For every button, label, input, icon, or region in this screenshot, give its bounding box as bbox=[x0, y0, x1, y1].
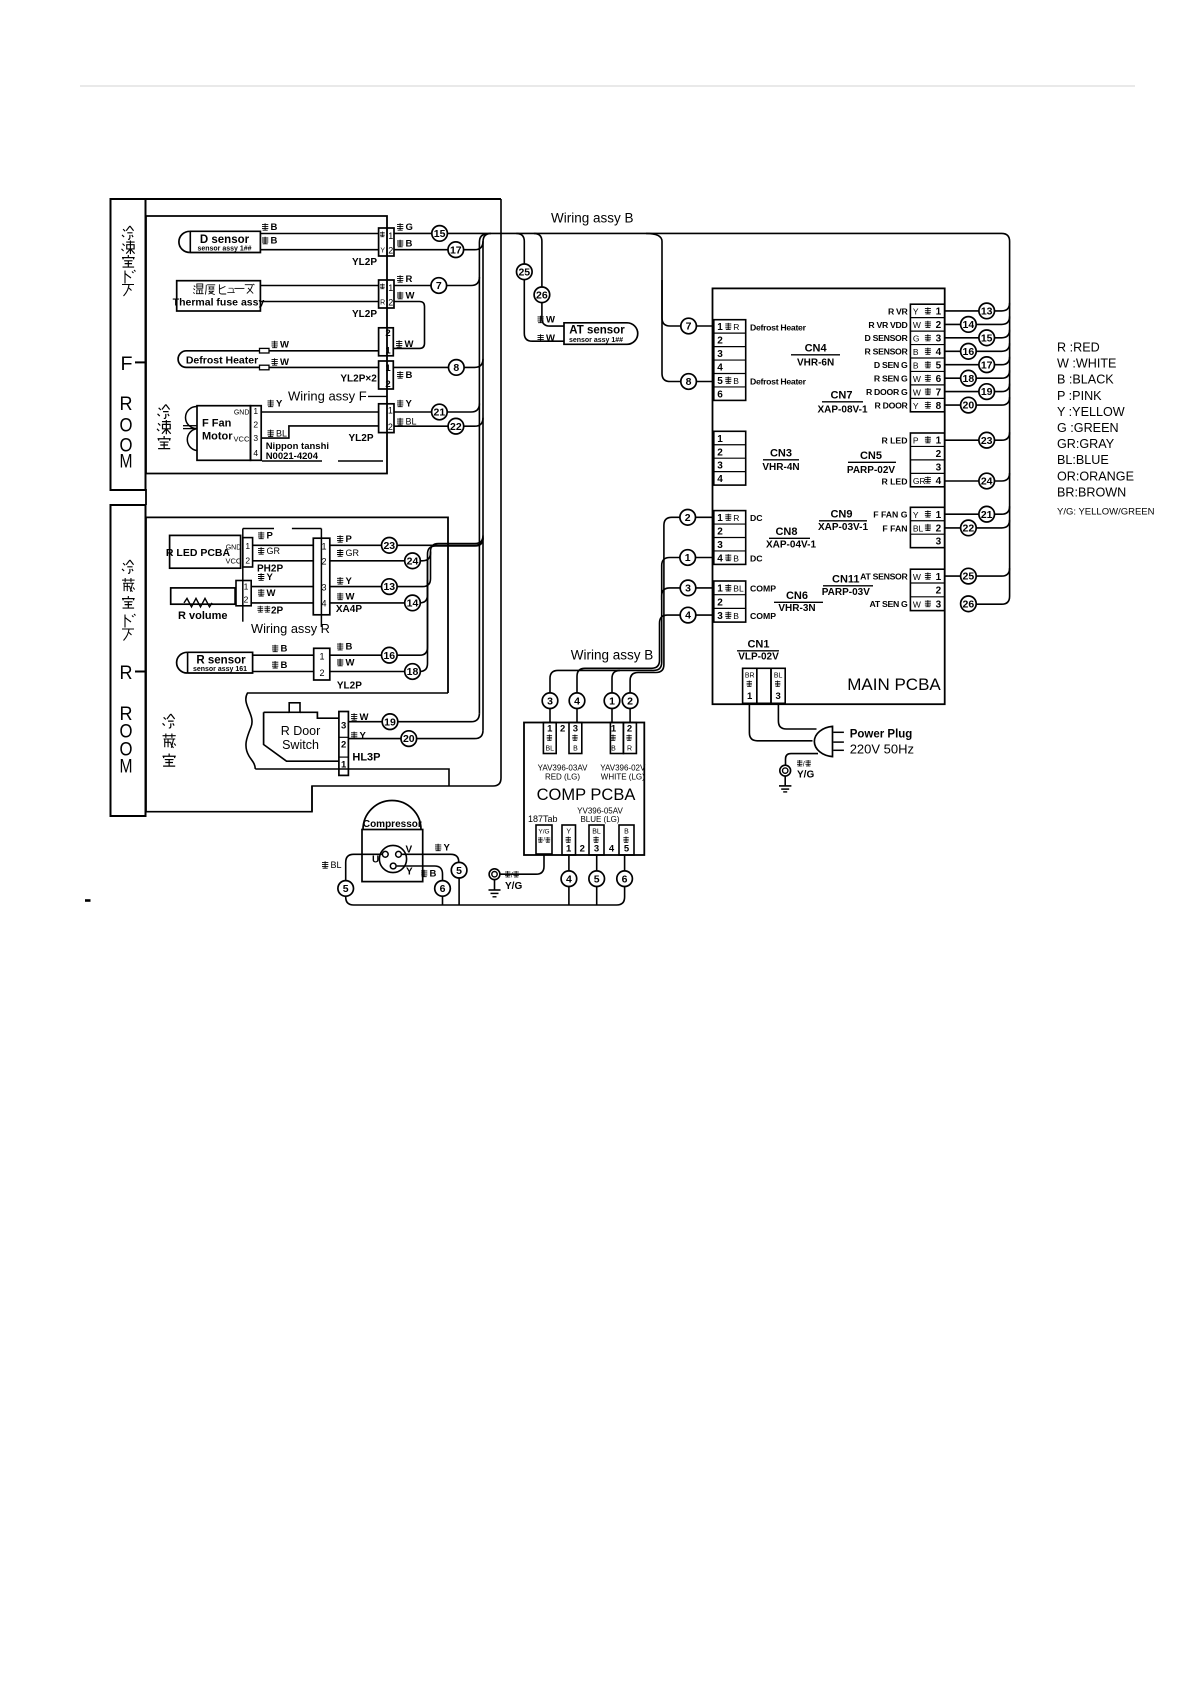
label Y/G bbox=[505, 871, 510, 877]
connector CN1 bbox=[743, 668, 757, 703]
label Y yellow bbox=[258, 573, 264, 580]
svg-text:XA4P: XA4P bbox=[336, 604, 362, 615]
svg-text:COMP PCBA: COMP PCBA bbox=[537, 786, 636, 804]
compressor terminal bbox=[379, 845, 406, 872]
svg-text:6: 6 bbox=[622, 873, 628, 885]
svg-text:7: 7 bbox=[436, 280, 442, 292]
svg-text:3: 3 bbox=[936, 600, 942, 611]
svg-text:3: 3 bbox=[717, 540, 723, 551]
svg-text:22: 22 bbox=[963, 523, 975, 535]
svg-text:2: 2 bbox=[321, 557, 326, 567]
svg-text:1: 1 bbox=[936, 572, 942, 583]
svg-text:220V 50Hz: 220V 50Hz bbox=[850, 742, 914, 757]
svg-text:17: 17 bbox=[450, 244, 462, 256]
chassis ground bbox=[489, 869, 500, 880]
svg-text:BL: BL bbox=[276, 428, 287, 438]
node 18 (right) bbox=[961, 370, 977, 386]
svg-text:W :WHITE: W :WHITE bbox=[1057, 357, 1116, 371]
wire 8 to bus bbox=[393, 359, 483, 368]
svg-text:W: W bbox=[546, 315, 555, 326]
connector CN3 bbox=[714, 431, 746, 485]
label B black bbox=[272, 661, 278, 668]
svg-text:3: 3 bbox=[253, 433, 258, 443]
wire volume pin2 bbox=[251, 602, 313, 604]
thermal fuse assy bbox=[177, 281, 261, 311]
svg-text:19: 19 bbox=[981, 386, 993, 398]
svg-text:CN4: CN4 bbox=[805, 343, 828, 355]
svg-text:Y :YELLOW: Y :YELLOW bbox=[1057, 405, 1125, 419]
bottom rail bbox=[346, 887, 625, 906]
svg-text:R LED: R LED bbox=[881, 476, 907, 486]
node 18 bbox=[405, 664, 421, 680]
svg-text:R: R bbox=[627, 746, 632, 753]
svg-text:3: 3 bbox=[936, 537, 942, 548]
svg-text:16: 16 bbox=[963, 346, 975, 358]
R door switch body bbox=[264, 712, 339, 761]
svg-text:2: 2 bbox=[388, 298, 393, 308]
wire defrost top bbox=[269, 350, 379, 352]
wire 17 to bus bbox=[394, 241, 483, 250]
svg-text:1: 1 bbox=[388, 406, 393, 416]
svg-text:Y/G: YELLOW/GREEN: Y/G: YELLOW/GREEN bbox=[1057, 507, 1155, 518]
svg-text:1: 1 bbox=[936, 307, 942, 318]
svg-text:7: 7 bbox=[936, 387, 942, 398]
node 15 bbox=[432, 226, 448, 242]
compressor dome bbox=[363, 801, 421, 830]
svg-text:1: 1 bbox=[385, 363, 391, 374]
node 24 bbox=[405, 553, 421, 569]
fan blades bbox=[186, 407, 197, 451]
svg-text:B: B bbox=[430, 869, 437, 880]
node 7 (left) bbox=[431, 278, 447, 294]
svg-text:1: 1 bbox=[547, 724, 553, 735]
svg-text:2: 2 bbox=[385, 379, 390, 390]
svg-text:COMP: COMP bbox=[750, 584, 776, 594]
wire 19 (right) bbox=[945, 384, 1010, 392]
node 13 (right) bbox=[979, 303, 995, 319]
svg-text:YL2P×2: YL2P×2 bbox=[340, 374, 377, 385]
node 21 (right) bbox=[979, 506, 995, 522]
svg-text:W: W bbox=[280, 357, 289, 368]
svg-text:1: 1 bbox=[936, 510, 942, 521]
svg-text:1: 1 bbox=[388, 231, 393, 241]
svg-text:2: 2 bbox=[717, 527, 723, 538]
label P pink bbox=[258, 532, 264, 539]
node 14 bbox=[405, 595, 421, 611]
door switch enclosure bbox=[246, 693, 449, 786]
comp connector YAV396-03AV bbox=[543, 723, 556, 754]
compressor body bbox=[362, 830, 423, 882]
wire 20 (right) bbox=[945, 397, 1010, 405]
svg-text:Y: Y bbox=[913, 307, 919, 317]
label B black bbox=[262, 223, 268, 230]
svg-text:YL2P: YL2P bbox=[352, 257, 377, 268]
svg-text:P: P bbox=[913, 436, 919, 446]
svg-text:B: B bbox=[406, 239, 413, 250]
svg-text:VHR-4N: VHR-4N bbox=[762, 462, 799, 473]
svg-text:U: U bbox=[372, 855, 379, 866]
svg-text:CN6: CN6 bbox=[786, 590, 808, 602]
svg-text:3: 3 bbox=[594, 844, 599, 855]
svg-text:21: 21 bbox=[434, 407, 446, 419]
wire 18 (right) bbox=[945, 370, 1010, 378]
svg-text:Y: Y bbox=[913, 401, 919, 411]
dashed assembly bottom bbox=[262, 460, 322, 462]
svg-text:13: 13 bbox=[981, 306, 993, 318]
svg-text:Wiring assy R: Wiring assy R bbox=[251, 621, 330, 636]
svg-text:OR:ORANGE: OR:ORANGE bbox=[1057, 469, 1134, 483]
R sensor bbox=[187, 652, 253, 673]
label W white bbox=[272, 341, 278, 348]
svg-text:17: 17 bbox=[981, 359, 993, 371]
page rule bbox=[80, 85, 1135, 87]
label G green bbox=[397, 223, 403, 230]
node 19 bbox=[382, 714, 398, 730]
svg-text:2: 2 bbox=[936, 320, 942, 331]
kanji reizoushitsu bbox=[163, 714, 175, 728]
label R red bbox=[397, 275, 403, 282]
svg-text:1: 1 bbox=[566, 844, 572, 855]
svg-text:R: R bbox=[406, 274, 413, 285]
svg-text:2: 2 bbox=[319, 668, 324, 678]
wire loop thermal to heater connector bbox=[393, 302, 424, 349]
wire 21 to bus bbox=[394, 404, 479, 413]
svg-text:4: 4 bbox=[685, 610, 691, 622]
earth ground bbox=[780, 765, 791, 776]
svg-text:1: 1 bbox=[253, 406, 258, 416]
node 24 (right) bbox=[979, 473, 995, 489]
svg-text:VLP-02V: VLP-02V bbox=[738, 652, 779, 663]
node 25 (right) bbox=[961, 568, 977, 584]
MAIN PCBA board bbox=[713, 288, 945, 704]
svg-text:/: / bbox=[511, 873, 513, 880]
svg-text:1: 1 bbox=[388, 283, 393, 293]
R door label kanji bbox=[122, 560, 134, 573]
svg-text:sensor assy 1##: sensor assy 1## bbox=[197, 246, 251, 253]
svg-text:F FAN G: F FAN G bbox=[873, 510, 908, 520]
svg-text:20: 20 bbox=[963, 400, 975, 412]
svg-text:W: W bbox=[406, 291, 415, 302]
svg-text:2: 2 bbox=[717, 597, 723, 608]
R LED PCBA bbox=[170, 535, 241, 568]
svg-text:CN11: CN11 bbox=[832, 574, 860, 586]
wire 22 (right) bbox=[945, 520, 1010, 528]
svg-text:CN1: CN1 bbox=[747, 639, 769, 651]
svg-text:R: R bbox=[380, 300, 385, 307]
svg-text:B: B bbox=[624, 829, 629, 836]
svg-text:B: B bbox=[271, 236, 278, 247]
svg-text:R VR VDD: R VR VDD bbox=[868, 320, 907, 330]
label W white bbox=[397, 292, 403, 299]
wire 23 bbox=[330, 537, 483, 545]
label GR gray bbox=[258, 547, 264, 554]
wire 24 (right) bbox=[945, 473, 1010, 481]
svg-text:P: P bbox=[267, 531, 274, 542]
svg-text:3: 3 bbox=[936, 462, 942, 473]
node 25 bbox=[517, 264, 533, 280]
svg-text:YL2P: YL2P bbox=[348, 433, 373, 444]
label W white bbox=[258, 589, 264, 596]
svg-text:Y: Y bbox=[380, 248, 385, 255]
svg-text:R sensor: R sensor bbox=[196, 654, 246, 666]
svg-text:4: 4 bbox=[936, 347, 942, 358]
svg-text:1: 1 bbox=[319, 652, 324, 662]
svg-text:20: 20 bbox=[403, 733, 415, 745]
connector CN9 bbox=[910, 507, 944, 547]
svg-text:3: 3 bbox=[717, 461, 723, 472]
svg-text:3: 3 bbox=[717, 611, 723, 622]
label W white bbox=[337, 659, 343, 666]
F top boundary line bbox=[111, 198, 502, 200]
F room door box bbox=[111, 199, 146, 490]
connector YL2P (D sensor) bbox=[379, 228, 394, 256]
wire volume pin1 bbox=[251, 586, 313, 588]
svg-text:HL3P: HL3P bbox=[352, 752, 380, 764]
svg-text:Y: Y bbox=[346, 576, 353, 587]
comp connector YAV396-02V bbox=[610, 723, 623, 754]
wiring assy R boundary bbox=[243, 528, 274, 530]
svg-text:23: 23 bbox=[981, 435, 993, 447]
svg-text:Compressor: Compressor bbox=[363, 819, 422, 830]
svg-text:PARP-03V: PARP-03V bbox=[822, 587, 870, 598]
svg-text:XAP-03V-1: XAP-03V-1 bbox=[818, 522, 868, 533]
svg-text:14: 14 bbox=[407, 598, 419, 610]
label B black bbox=[397, 371, 403, 378]
plug ground wire bbox=[786, 754, 819, 766]
svg-text:4: 4 bbox=[574, 695, 580, 707]
svg-text:GND: GND bbox=[226, 545, 242, 552]
comp bottom wires bbox=[568, 855, 570, 871]
svg-text:BL: BL bbox=[774, 673, 783, 680]
svg-text:Y: Y bbox=[406, 867, 413, 878]
svg-text:25: 25 bbox=[963, 571, 975, 583]
svg-text:F FAN: F FAN bbox=[882, 523, 907, 533]
svg-text:2: 2 bbox=[341, 740, 346, 751]
svg-text:2P: 2P bbox=[271, 606, 284, 617]
svg-text:Thermal fuse assy: Thermal fuse assy bbox=[173, 297, 265, 309]
label W white bbox=[538, 316, 544, 323]
wire 16 bbox=[330, 560, 428, 655]
wire fan GND bbox=[261, 411, 378, 413]
svg-text:Y: Y bbox=[444, 843, 451, 854]
svg-text:Y: Y bbox=[406, 399, 413, 410]
svg-text:YL2P: YL2P bbox=[352, 309, 377, 320]
R volume bbox=[171, 588, 235, 604]
svg-text:1: 1 bbox=[244, 582, 249, 592]
wire 22 to bus bbox=[394, 418, 483, 427]
node 23 (right) bbox=[979, 432, 995, 448]
svg-text:2: 2 bbox=[244, 595, 249, 605]
svg-text:1: 1 bbox=[685, 552, 691, 564]
svg-text:XAP-04V-1: XAP-04V-1 bbox=[766, 540, 816, 551]
wire D sensor pin1 bbox=[260, 233, 378, 235]
node 20 (right) bbox=[961, 397, 977, 413]
svg-text:15: 15 bbox=[434, 228, 446, 240]
svg-text:Defrost Heater: Defrost Heater bbox=[186, 355, 258, 367]
defrost heater bbox=[178, 351, 259, 368]
svg-text:R: R bbox=[733, 322, 739, 332]
svg-text:VHR-6N: VHR-6N bbox=[797, 358, 834, 369]
node 21 bbox=[432, 404, 448, 420]
svg-text:D sensor: D sensor bbox=[200, 234, 250, 246]
svg-text:24: 24 bbox=[407, 555, 419, 567]
svg-text:B: B bbox=[281, 644, 288, 655]
connector HL3P bbox=[339, 712, 349, 776]
svg-text:Y: Y bbox=[913, 510, 919, 520]
node 3 (CN6) bbox=[696, 587, 714, 589]
svg-text:B: B bbox=[733, 376, 739, 386]
svg-text:XAP-08V-1: XAP-08V-1 bbox=[817, 405, 867, 416]
label B black bbox=[421, 870, 427, 877]
node 15 (right) bbox=[979, 330, 995, 346]
svg-text:8: 8 bbox=[686, 376, 692, 388]
connector volume 2P bbox=[236, 581, 251, 606]
svg-text:sensor assy 161: sensor assy 161 bbox=[193, 666, 247, 673]
svg-text:/: / bbox=[803, 762, 805, 769]
power plug bbox=[814, 726, 832, 756]
svg-text:4: 4 bbox=[321, 599, 326, 609]
ground wire from tab bbox=[500, 854, 544, 874]
svg-text:R volume: R volume bbox=[178, 610, 228, 622]
label Y yellow bbox=[337, 577, 343, 584]
svg-text:W: W bbox=[280, 340, 289, 351]
svg-text:VCC: VCC bbox=[234, 434, 250, 443]
svg-text:Y: Y bbox=[276, 399, 283, 410]
label B black bbox=[262, 237, 268, 244]
svg-text:CN7: CN7 bbox=[830, 390, 852, 402]
svg-text:VCC: VCC bbox=[225, 557, 241, 566]
svg-text:CN5: CN5 bbox=[860, 450, 882, 462]
svg-text:2: 2 bbox=[936, 586, 942, 597]
svg-text:Wiring assy B: Wiring assy B bbox=[571, 648, 654, 663]
svg-text:COMP: COMP bbox=[750, 611, 776, 621]
connector CN4 bbox=[714, 320, 746, 401]
connector YL2Px2 upper bbox=[379, 328, 394, 356]
svg-text:15: 15 bbox=[981, 332, 993, 344]
svg-text:W: W bbox=[913, 374, 921, 384]
wire 15 (right) bbox=[945, 330, 1010, 338]
node 4 (bottom) bbox=[561, 871, 577, 887]
connector CN6 bbox=[714, 581, 746, 622]
svg-text:M: M bbox=[120, 451, 133, 472]
svg-text:Switch: Switch bbox=[282, 738, 319, 752]
svg-text:YAV396-03AV: YAV396-03AV bbox=[538, 764, 588, 773]
F door label kanji bbox=[122, 226, 134, 239]
svg-text:6: 6 bbox=[936, 374, 942, 385]
door box link bbox=[145, 489, 147, 505]
node 16 bbox=[382, 647, 398, 663]
node 5 (compressor V) bbox=[451, 862, 467, 878]
svg-text:CN3: CN3 bbox=[770, 448, 792, 460]
svg-text:19: 19 bbox=[384, 716, 396, 728]
svg-text:Y/G: Y/G bbox=[505, 881, 522, 892]
svg-text:4: 4 bbox=[717, 363, 723, 374]
svg-text:22: 22 bbox=[450, 421, 462, 433]
svg-text:M: M bbox=[120, 757, 133, 778]
label GR gray bbox=[337, 549, 343, 556]
wire pair 2 (MAIN CN8-1 to COMP) bbox=[630, 517, 680, 693]
bus wire and right trunk bbox=[394, 233, 1010, 604]
connector PH2P bbox=[243, 538, 253, 567]
svg-text:7: 7 bbox=[686, 321, 692, 333]
wire 23 (right) bbox=[945, 432, 1010, 440]
svg-text:2: 2 bbox=[385, 328, 390, 339]
wire led pin1 bbox=[253, 544, 314, 546]
svg-text:AT SENSOR: AT SENSOR bbox=[860, 572, 908, 582]
svg-text:R: R bbox=[733, 513, 739, 523]
label B black bbox=[272, 645, 278, 652]
svg-text:GR: GR bbox=[267, 546, 281, 556]
svg-text:4: 4 bbox=[609, 844, 615, 855]
node 16 (right) bbox=[961, 344, 977, 360]
svg-text:D SENSOR: D SENSOR bbox=[865, 333, 909, 343]
svg-text:O: O bbox=[120, 415, 133, 436]
svg-text:3: 3 bbox=[341, 721, 346, 732]
svg-text:W: W bbox=[913, 320, 921, 330]
svg-text:1: 1 bbox=[717, 434, 723, 445]
svg-text:B: B bbox=[733, 553, 739, 563]
svg-text:YAV396-02V: YAV396-02V bbox=[600, 764, 646, 773]
svg-text:2: 2 bbox=[717, 336, 723, 347]
svg-text:Y: Y bbox=[360, 730, 367, 741]
wire 14 bbox=[330, 538, 483, 603]
node 5 (compressor U) bbox=[338, 881, 354, 897]
svg-text:F: F bbox=[121, 354, 133, 375]
label W white bbox=[337, 593, 343, 600]
wire compressor U bbox=[346, 854, 382, 880]
svg-text:1: 1 bbox=[936, 436, 942, 447]
wire fan VCC step bbox=[261, 426, 378, 438]
svg-text:Defrost Heater: Defrost Heater bbox=[750, 377, 807, 387]
svg-text:Wiring assy B: Wiring assy B bbox=[551, 211, 634, 226]
svg-text:26: 26 bbox=[963, 598, 975, 610]
switch plunger bbox=[289, 703, 300, 713]
node 5 (bottom) bbox=[589, 871, 605, 887]
wire 16 (right) bbox=[945, 343, 1010, 351]
wire 20 bbox=[348, 730, 483, 739]
node 7 (CN4) bbox=[646, 233, 681, 326]
wire compressor V bbox=[402, 854, 459, 862]
connector CN7 bbox=[910, 304, 944, 412]
svg-text:Defrost Heater: Defrost Heater bbox=[750, 323, 807, 333]
label Y yellow bbox=[435, 844, 441, 851]
svg-text:16: 16 bbox=[383, 650, 395, 662]
svg-text:P :PINK: P :PINK bbox=[1057, 389, 1102, 403]
svg-text:5: 5 bbox=[456, 865, 462, 877]
wire pair 3 bbox=[550, 588, 680, 693]
svg-text:CN8: CN8 bbox=[775, 526, 797, 538]
svg-text:4: 4 bbox=[566, 873, 572, 885]
wires into comp connector bbox=[549, 709, 551, 723]
F fan motor bbox=[197, 406, 251, 461]
svg-text:5: 5 bbox=[594, 873, 600, 885]
svg-text:BL: BL bbox=[546, 746, 555, 753]
wire 13 bbox=[330, 552, 431, 587]
svg-text:24: 24 bbox=[981, 476, 993, 488]
AT sensor bbox=[564, 323, 638, 345]
svg-text:B: B bbox=[406, 370, 413, 381]
svg-text:W: W bbox=[346, 592, 355, 603]
svg-text:GR: GR bbox=[346, 548, 360, 558]
svg-text:R SENSOR: R SENSOR bbox=[865, 347, 909, 357]
svg-text:8: 8 bbox=[453, 362, 459, 374]
svg-text:BLUE (LG): BLUE (LG) bbox=[580, 815, 619, 824]
node 17 bbox=[448, 242, 464, 258]
wire 24 bbox=[330, 536, 483, 561]
stray dash bbox=[85, 899, 91, 902]
wire 7 to bus bbox=[394, 277, 479, 286]
wire 19 bbox=[348, 713, 479, 722]
